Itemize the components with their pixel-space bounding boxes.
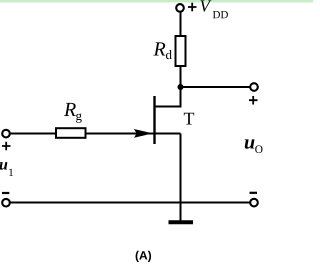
label Rg (64, 103, 82, 123)
node drain junction (178, 84, 184, 90)
label - (bottom left) (2, 192, 9, 194)
label uO (245, 139, 263, 153)
label + (input) (2, 142, 11, 151)
node VDD terminal (176, 4, 184, 12)
transistor T channel bar (153, 96, 155, 144)
bottom wire (10, 202, 251, 204)
wire Rg to gate (86, 133, 154, 135)
label (A) (136, 251, 151, 262)
wire source lead (156, 133, 181, 135)
output + terminal (250, 83, 258, 91)
input terminal + (2, 130, 10, 138)
label Rd (153, 42, 171, 59)
wire drain lead (155, 106, 182, 108)
label +VDD (188, 0, 228, 18)
wire source down to ground (180, 134, 182, 222)
wire Rd to drain node (180, 66, 182, 88)
wire drain node to output terminal (181, 86, 251, 88)
resistor Rg (56, 128, 86, 138)
gate arrowhead (134, 129, 153, 138)
label + (output) (249, 96, 258, 105)
ground (169, 220, 194, 224)
label u1 (0, 162, 13, 176)
bottom-left terminal - (2, 199, 10, 207)
resistor Rd (176, 36, 186, 66)
bottom-right terminal - (250, 199, 258, 207)
wire input to Rg (10, 133, 56, 135)
label T (184, 113, 194, 125)
wire drain node down to transistor drain (180, 87, 182, 108)
label - (bottom right) (250, 192, 258, 194)
wire VDD to Rd (180, 12, 182, 37)
